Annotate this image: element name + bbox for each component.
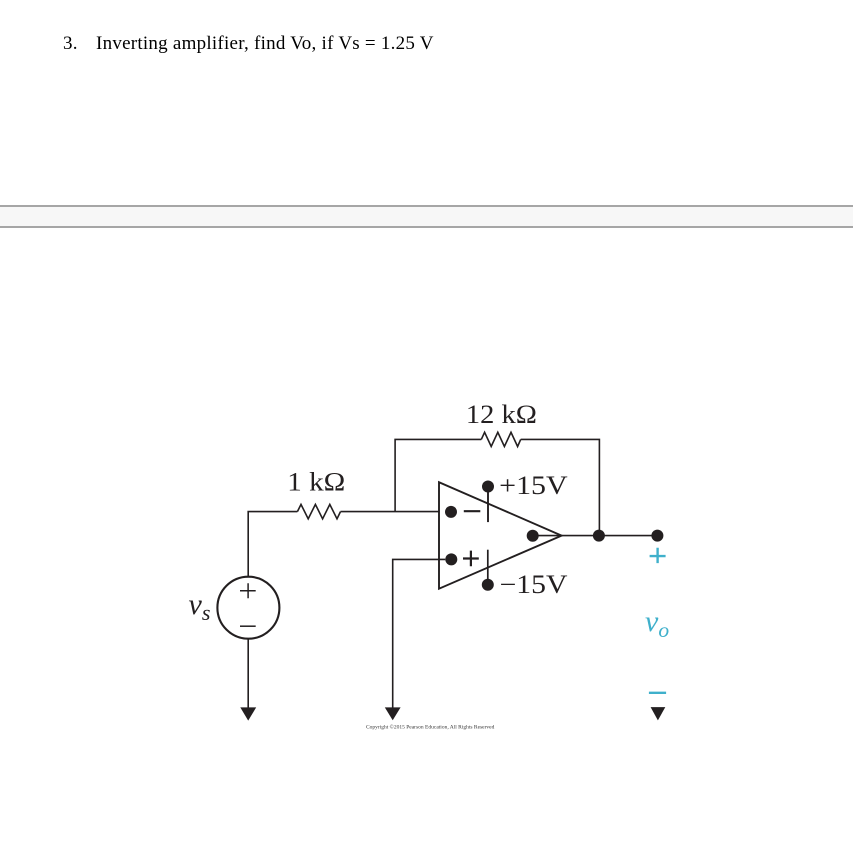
plus mark inside Vs [240,583,256,598]
svg-text:+15V: +15V [499,471,568,500]
plus label at noninverting input [463,551,479,567]
wire R1 to inverting input [341,511,440,513]
resistor R2 [481,432,520,446]
problem statement text [63,33,434,55]
voltage source Vs [217,577,279,639]
wire feedback left leg [395,439,481,511]
svg-text:Copyright ©2015 Pearson Educat: Copyright ©2015 Pearson Education, All R… [366,724,495,731]
op-amp U1 [439,482,562,589]
wire noninverting input to ground [393,559,446,708]
svg-text:vo: vo [645,605,669,642]
output pin dot [527,530,539,542]
wire output [533,535,658,537]
resistor R1 [297,504,340,518]
svg-text:vs: vs [189,588,211,625]
wire Vs top to R1 [248,512,297,577]
node output junction [593,530,605,542]
output polarity plus label [650,548,666,563]
inverting input pin dot [445,506,457,518]
svg-text:12 kΩ: 12 kΩ [466,400,537,429]
ground arrow output [651,707,666,720]
ground arrow noninverting [385,707,401,720]
minus mark inside Vs [240,625,256,627]
negative supply tick [487,550,489,581]
negative supply terminal dot -15V [482,579,494,591]
wire feedback right leg [521,439,600,535]
horizontal divider band [0,205,853,228]
output polarity minus label [649,692,666,694]
ground arrow below Vs [240,707,256,720]
minus label at inverting input [464,510,481,512]
ground wire below Vs [247,639,249,708]
positive supply terminal dot +15V [482,481,494,493]
positive supply tick [487,490,489,522]
svg-text:1 kΩ: 1 kΩ [287,468,345,497]
node output terminal [651,530,663,542]
noninverting input pin dot [445,553,457,565]
svg-text:−15V: −15V [500,570,568,599]
